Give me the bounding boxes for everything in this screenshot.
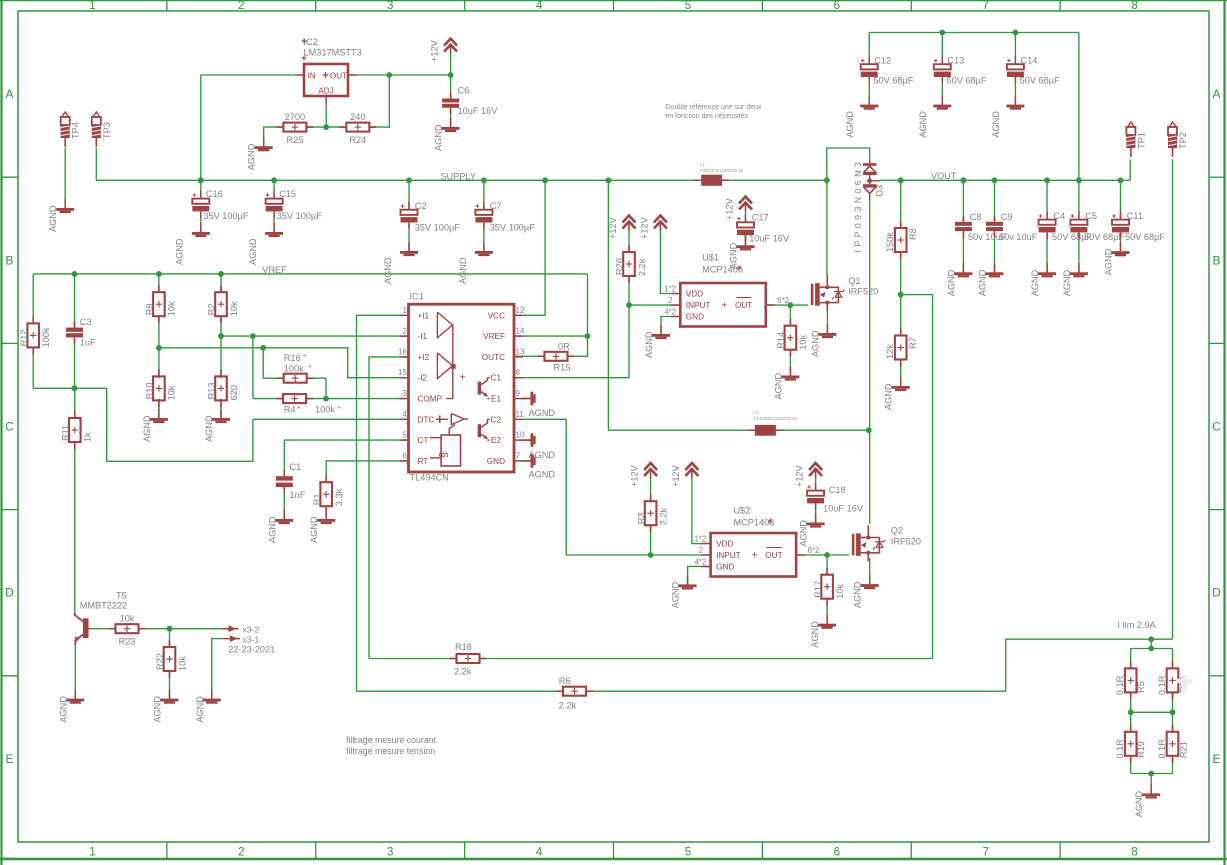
svg-text:50V 68µF: 50V 68µF	[1125, 232, 1165, 242]
svg-text:AGND: AGND	[773, 373, 783, 400]
svg-text:AGND: AGND	[195, 696, 205, 723]
svg-text:+: +	[303, 353, 307, 360]
svg-text:AGND: AGND	[884, 383, 894, 410]
svg-text:IRF520: IRF520	[891, 537, 921, 547]
svg-text:10k: 10k	[120, 614, 135, 624]
svg-text:R4: R4	[284, 405, 296, 415]
svg-text:INPUT: INPUT	[686, 301, 711, 310]
svg-text:100k: 100k	[284, 364, 304, 374]
svg-text:R25: R25	[286, 135, 303, 145]
svg-text:E1: E1	[491, 395, 501, 404]
svg-text:15: 15	[398, 368, 407, 377]
svg-text:4*2: 4*2	[664, 308, 676, 317]
svg-text:50V 68µF: 50V 68µF	[947, 76, 987, 86]
svg-text:GND: GND	[686, 313, 704, 322]
svg-text:74404054100229 6s: 74404054100229 6s	[753, 416, 797, 422]
svg-text:RT: RT	[418, 457, 429, 466]
svg-text:VREF: VREF	[483, 332, 505, 341]
svg-text:35V 100µF: 35V 100µF	[490, 223, 536, 233]
svg-text:VREF: VREF	[262, 265, 287, 275]
svg-text:8: 8	[1131, 0, 1137, 12]
svg-text:2.2k: 2.2k	[559, 701, 577, 711]
svg-text:10k: 10k	[798, 334, 808, 349]
svg-text:VCC: VCC	[488, 311, 505, 320]
svg-text:C17: C17	[752, 213, 769, 223]
svg-text:C: C	[5, 420, 14, 434]
svg-text:10k: 10k	[835, 583, 845, 598]
svg-text:D: D	[5, 586, 14, 600]
svg-text:11: 11	[516, 410, 525, 419]
svg-text:+12V: +12V	[639, 216, 649, 239]
svg-text:3.3k: 3.3k	[334, 488, 344, 506]
svg-text:50V 68µF: 50V 68µF	[873, 76, 913, 86]
svg-text:TP1: TP1	[1136, 132, 1146, 149]
svg-text:DTC: DTC	[418, 415, 435, 424]
svg-text:1uF: 1uF	[80, 338, 96, 348]
svg-text:6: 6	[834, 847, 840, 859]
svg-text:R19: R19	[1136, 741, 1146, 758]
svg-text:IPP093N06N3: IPP093N06N3	[853, 159, 863, 253]
svg-text:R15: R15	[554, 363, 571, 373]
svg-text:6: 6	[834, 0, 840, 12]
svg-text:50V 68µF: 50V 68µF	[1020, 76, 1060, 86]
svg-text:AGND: AGND	[153, 696, 163, 723]
svg-text:10uF 16V: 10uF 16V	[458, 106, 499, 116]
svg-text:+12V: +12V	[671, 464, 681, 487]
svg-text:3: 3	[387, 847, 393, 859]
svg-text:C9: C9	[1001, 212, 1013, 222]
svg-text:+12V: +12V	[608, 216, 618, 239]
svg-text:AGND: AGND	[991, 111, 1001, 138]
svg-text:IRF520: IRF520	[848, 287, 878, 297]
svg-text:8: 8	[516, 368, 521, 377]
svg-text:AGND: AGND	[175, 238, 185, 265]
svg-text:22-23-2021: 22-23-2021	[228, 645, 275, 655]
svg-text:E: E	[5, 752, 13, 766]
svg-text:C6: C6	[458, 86, 470, 96]
svg-text:AGND: AGND	[1062, 269, 1072, 296]
svg-text:35V 100µF: 35V 100µF	[415, 223, 461, 233]
svg-text:I lim 2.9A: I lim 2.9A	[1118, 620, 1157, 630]
svg-text:8: 8	[1131, 847, 1137, 859]
svg-text:VDD: VDD	[686, 290, 703, 299]
svg-text:GND: GND	[716, 563, 734, 572]
svg-text:§: §	[438, 452, 450, 458]
svg-text:filtrage mesure courant: filtrage mesure courant	[346, 735, 437, 745]
svg-text:35V 100µF: 35V 100µF	[203, 211, 249, 221]
svg-text:+12V: +12V	[795, 464, 805, 487]
svg-text:AGND: AGND	[529, 408, 556, 418]
svg-text:R8: R8	[908, 228, 918, 240]
svg-text:12: 12	[516, 306, 525, 315]
svg-text:4: 4	[403, 410, 408, 419]
svg-text:AGND: AGND	[309, 516, 319, 543]
svg-text:R14: R14	[776, 332, 786, 349]
svg-text:10uF 16V: 10uF 16V	[823, 504, 864, 514]
svg-text:+: +	[308, 364, 312, 371]
svg-text:L2: L2	[753, 410, 759, 416]
svg-text:AGND: AGND	[529, 470, 556, 480]
svg-text:R11: R11	[61, 425, 71, 441]
svg-text:AGND: AGND	[248, 238, 258, 265]
svg-text:14: 14	[516, 327, 525, 336]
svg-text:INPUT: INPUT	[716, 551, 741, 560]
svg-text:R2: R2	[207, 303, 217, 315]
svg-text:AGND: AGND	[810, 330, 820, 357]
svg-text:A: A	[5, 87, 13, 101]
svg-text:2: 2	[403, 327, 408, 336]
svg-text:R12: R12	[19, 330, 29, 347]
svg-text:IC2: IC2	[304, 37, 318, 47]
svg-text:D3: D3	[875, 185, 885, 197]
svg-text:AGND: AGND	[1030, 269, 1040, 296]
svg-text:10k: 10k	[229, 301, 239, 316]
svg-text:C5: C5	[1085, 211, 1097, 221]
svg-text:SUPPLY: SUPPLY	[440, 172, 476, 182]
svg-text:50v 10uF: 50v 10uF	[999, 232, 1038, 242]
svg-text:+: +	[337, 405, 341, 412]
svg-text:COMP: COMP	[418, 395, 443, 404]
svg-text:AGND: AGND	[247, 143, 257, 170]
svg-text:OUT: OUT	[330, 72, 347, 81]
svg-text:2.2k: 2.2k	[454, 667, 472, 677]
svg-text:4: 4	[536, 0, 543, 12]
svg-text:+: +	[460, 373, 466, 384]
svg-text:6*2: 6*2	[808, 546, 820, 555]
svg-text:-I1: -I1	[418, 332, 428, 341]
svg-text:R22: R22	[155, 653, 165, 670]
svg-text:AGND: AGND	[434, 124, 444, 151]
svg-text:MMBT2222: MMBT2222	[80, 601, 128, 611]
svg-text:620: 620	[229, 385, 239, 400]
svg-text:0R: 0R	[558, 342, 570, 352]
svg-text:7: 7	[982, 0, 988, 12]
svg-text:1: 1	[403, 306, 408, 315]
svg-text:B: B	[5, 253, 13, 267]
svg-text:10uF 16V: 10uF 16V	[749, 234, 790, 244]
svg-text:R21: R21	[1179, 741, 1189, 758]
svg-text:10k: 10k	[167, 301, 177, 316]
svg-text:6*2: 6*2	[777, 296, 789, 305]
svg-text:C4: C4	[1053, 211, 1065, 221]
svg-text:Q2: Q2	[891, 526, 903, 536]
svg-text:9: 9	[516, 389, 521, 398]
svg-text:AGND: AGND	[671, 581, 681, 608]
svg-text:2: 2	[668, 296, 672, 305]
svg-text:R10: R10	[145, 383, 155, 400]
svg-text:+I1: +I1	[418, 311, 430, 320]
svg-text:+12V: +12V	[725, 197, 735, 220]
svg-text:+12V: +12V	[630, 464, 640, 487]
svg-text:100k: 100k	[41, 327, 51, 347]
svg-text:filtrage mesure tension: filtrage mesure tension	[346, 746, 435, 756]
svg-text:+: +	[297, 405, 301, 412]
svg-text:R3: R3	[636, 512, 646, 524]
svg-text:0.1R: 0.1R	[1157, 739, 1167, 759]
svg-text:74404054100229 6s: 74404054100229 6s	[700, 168, 744, 174]
svg-text:IN: IN	[308, 72, 316, 81]
svg-text:R5: R5	[1136, 681, 1146, 693]
svg-text:100k: 100k	[315, 405, 335, 415]
svg-text:R18: R18	[455, 642, 472, 652]
svg-text:0.1R: 0.1R	[1157, 675, 1167, 695]
svg-text:35V 100µF: 35V 100µF	[277, 211, 323, 221]
svg-text:R1: R1	[312, 493, 322, 505]
svg-text:C16: C16	[206, 189, 223, 199]
svg-text:1: 1	[89, 847, 95, 859]
svg-text:AGND: AGND	[58, 696, 68, 723]
svg-text:A: A	[1212, 87, 1220, 101]
svg-text:C3: C3	[80, 317, 92, 327]
svg-text:OUT: OUT	[735, 301, 752, 310]
svg-text:1: 1	[89, 0, 95, 12]
svg-text:AGND: AGND	[267, 516, 277, 543]
svg-text:TP2: TP2	[1178, 132, 1188, 149]
svg-text:10: 10	[516, 431, 525, 440]
svg-text:AGND: AGND	[799, 520, 809, 547]
svg-text:AGND: AGND	[644, 331, 654, 358]
svg-text:-I2: -I2	[418, 374, 428, 383]
svg-text:0.1R: 0.1R	[1115, 739, 1125, 759]
svg-text:E: E	[1212, 752, 1220, 766]
svg-text:MCP1406: MCP1406	[734, 518, 775, 528]
svg-text:AGND: AGND	[918, 111, 928, 138]
svg-text:1k: 1k	[83, 432, 93, 442]
svg-text:+: +	[721, 301, 727, 312]
svg-text:4*2: 4*2	[695, 558, 707, 567]
svg-text:2: 2	[238, 847, 244, 859]
svg-text:ADJ: ADJ	[318, 87, 333, 96]
svg-text:C18: C18	[829, 485, 846, 495]
svg-text:AGND: AGND	[978, 269, 988, 296]
svg-text:C1: C1	[491, 374, 502, 383]
svg-text:2: 2	[238, 0, 244, 12]
svg-text:R13: R13	[207, 383, 217, 400]
svg-text:U$2: U$2	[734, 506, 751, 516]
svg-text:AGND: AGND	[383, 257, 393, 284]
svg-text:240: 240	[350, 112, 365, 122]
svg-text:R9: R9	[145, 303, 155, 315]
svg-text:3: 3	[387, 0, 393, 12]
svg-text:Double référence une sur deux: Double référence une sur deux	[665, 104, 762, 111]
svg-text:R7: R7	[908, 337, 918, 349]
svg-text:2.2k: 2.2k	[658, 507, 668, 525]
svg-text:AGND: AGND	[1134, 790, 1144, 817]
svg-text:C15: C15	[279, 189, 296, 199]
svg-text:C2: C2	[491, 415, 502, 424]
svg-text:IC1: IC1	[410, 292, 424, 302]
svg-text:2.2k: 2.2k	[637, 258, 647, 276]
svg-text:R24: R24	[349, 135, 366, 145]
svg-text:10k: 10k	[167, 385, 177, 400]
svg-text:R17: R17	[813, 581, 823, 598]
svg-text:C7: C7	[490, 201, 502, 211]
svg-text:x3-2: x3-2	[243, 625, 260, 635]
svg-text:MCP1406: MCP1406	[702, 265, 743, 275]
svg-text:TP3: TP3	[102, 122, 112, 139]
svg-text:150k: 150k	[885, 232, 895, 252]
svg-text:5: 5	[403, 431, 408, 440]
svg-text:en fonction des nécessités: en fonction des nécessités	[665, 113, 748, 120]
svg-text:C1: C1	[290, 462, 302, 472]
svg-text:5: 5	[685, 0, 691, 12]
svg-text:x3-1: x3-1	[243, 635, 260, 645]
svg-text:VDD: VDD	[716, 540, 733, 549]
svg-text:C13: C13	[947, 56, 964, 66]
svg-text:5: 5	[685, 847, 691, 859]
svg-text:TP4: TP4	[71, 122, 81, 139]
svg-text:2700: 2700	[285, 112, 305, 122]
svg-text:12k: 12k	[885, 344, 895, 359]
svg-text:R16: R16	[284, 353, 301, 363]
svg-text:E2: E2	[491, 436, 501, 445]
svg-text:6: 6	[403, 451, 408, 460]
svg-text:10k: 10k	[177, 656, 187, 671]
svg-text:1nF: 1nF	[290, 490, 306, 500]
svg-text:AGND: AGND	[458, 257, 468, 284]
svg-text:7: 7	[982, 847, 988, 859]
svg-text:AGND: AGND	[845, 111, 855, 138]
svg-text:4: 4	[536, 847, 543, 859]
svg-text:Q1: Q1	[848, 276, 860, 286]
svg-text:R23: R23	[119, 637, 136, 647]
svg-text:C: C	[1212, 420, 1221, 434]
svg-text:D: D	[1212, 586, 1221, 600]
svg-text:3: 3	[403, 389, 408, 398]
svg-text:AGND: AGND	[946, 269, 956, 296]
svg-text:OUT: OUT	[765, 551, 782, 560]
svg-text:R26: R26	[615, 258, 625, 275]
svg-text:50V 68µF: 50V 68µF	[1084, 232, 1124, 242]
svg-text:CT: CT	[418, 436, 429, 445]
svg-text:U$1: U$1	[702, 253, 719, 263]
svg-text:+I2: +I2	[418, 353, 430, 362]
svg-text:16: 16	[398, 347, 407, 356]
svg-text:1*2: 1*2	[695, 535, 707, 544]
svg-text:+12V: +12V	[430, 39, 440, 62]
svg-text:C8: C8	[970, 212, 982, 222]
svg-text:+: +	[752, 551, 758, 562]
svg-text:L1: L1	[700, 163, 706, 169]
svg-text:R6: R6	[559, 676, 571, 686]
svg-text:AGND: AGND	[1104, 248, 1114, 275]
svg-text:VOUT: VOUT	[931, 171, 957, 181]
svg-text:LM317MSTT3: LM317MSTT3	[304, 48, 362, 58]
svg-text:C14: C14	[1021, 56, 1038, 66]
svg-text:OUTC: OUTC	[482, 353, 505, 362]
svg-text:AGND: AGND	[142, 415, 152, 442]
svg-text:7: 7	[516, 451, 521, 460]
svg-text:0.1R: 0.1R	[1115, 675, 1125, 695]
svg-text:AGND: AGND	[810, 621, 820, 648]
svg-text:T5: T5	[116, 591, 127, 601]
svg-text:13: 13	[516, 347, 525, 356]
svg-text:AGND: AGND	[48, 205, 58, 232]
svg-text:AGND: AGND	[853, 581, 863, 608]
svg-text:GND: GND	[487, 457, 505, 466]
svg-text:2: 2	[699, 546, 703, 555]
svg-text:B: B	[1212, 253, 1220, 267]
svg-text:1*2: 1*2	[664, 285, 676, 294]
svg-text:C11: C11	[1127, 211, 1143, 221]
svg-text:C12: C12	[874, 56, 891, 66]
svg-text:TL494CN: TL494CN	[410, 473, 449, 483]
svg-text:C2: C2	[415, 201, 427, 211]
svg-text:AGND: AGND	[204, 415, 214, 442]
